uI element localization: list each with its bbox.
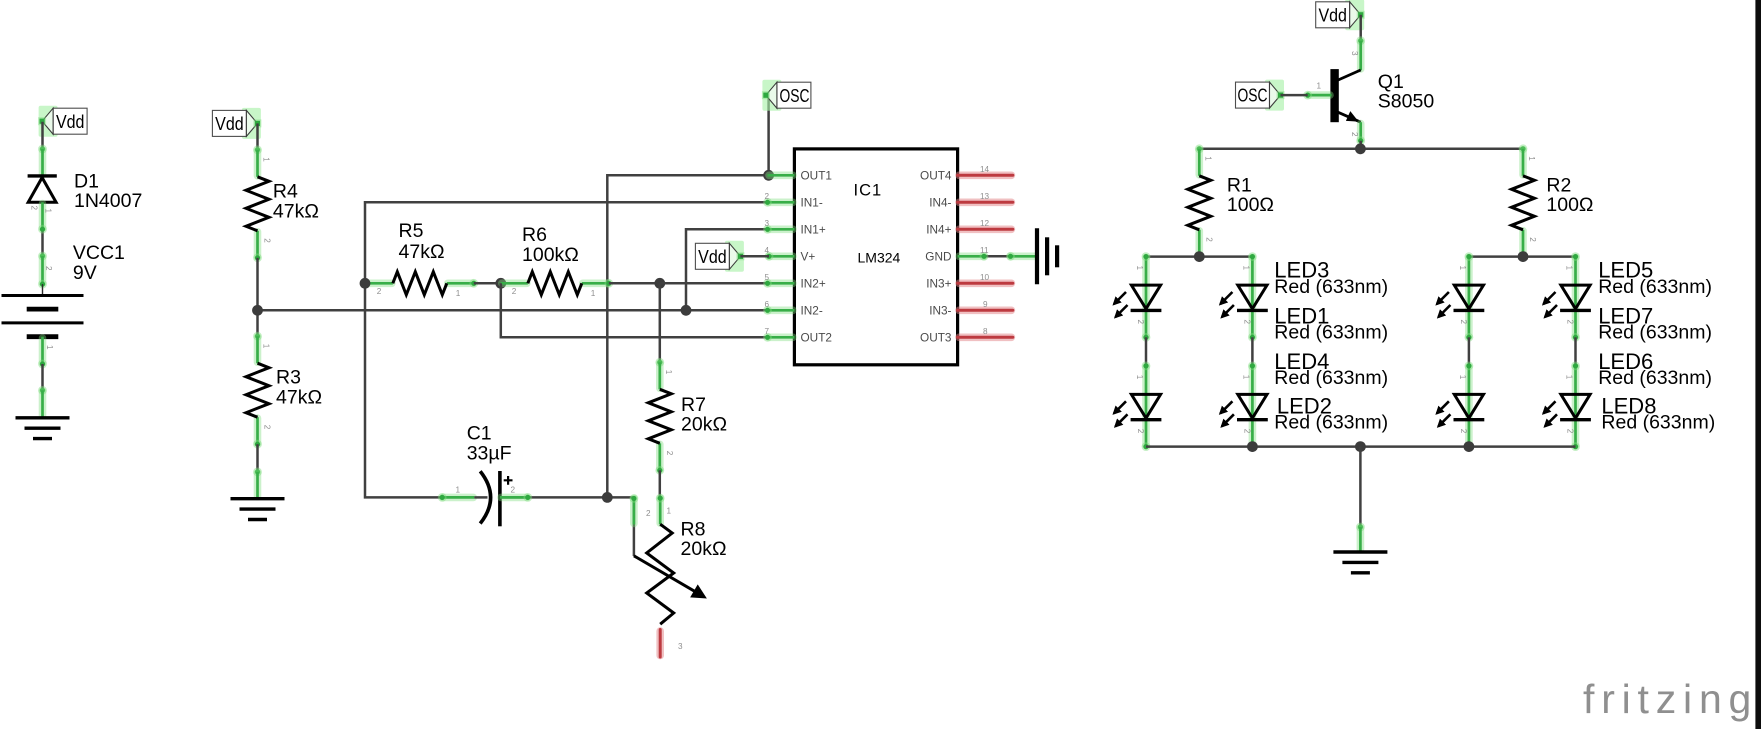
svg-text:IN4-: IN4- <box>929 196 951 210</box>
svg-text:1N4007: 1N4007 <box>74 190 142 212</box>
svg-text:2: 2 <box>511 486 516 495</box>
IC1 pin 7 OUT2 (green stub) <box>763 333 794 342</box>
wire D1 to battery <box>41 229 44 256</box>
svg-text:IN1-: IN1- <box>801 196 823 210</box>
LED3 (upper, column A) <box>1114 252 1161 342</box>
trimmer R8 pin1 (green) <box>656 498 664 523</box>
svg-text:9: 9 <box>983 300 988 309</box>
transistor Q1 base bar <box>1330 69 1338 122</box>
svg-text:33µF: 33µF <box>467 443 512 465</box>
svg-text:OUT1: OUT1 <box>801 169 832 183</box>
trimmer R8 wiper arrow <box>634 556 703 596</box>
transistor Q1 emitter pin (green) <box>1357 124 1365 140</box>
svg-text:5: 5 <box>765 273 770 282</box>
svg-text:Red (633nm): Red (633nm) <box>1274 322 1388 344</box>
wire R4 to bias node <box>256 258 259 311</box>
wire (green) to ground pin <box>1357 528 1365 550</box>
svg-text:R3: R3 <box>276 367 301 389</box>
wire R6 to IN2+ node <box>609 282 660 285</box>
diode D1 pin2 <box>39 204 47 229</box>
LED1 (upper, column B) <box>1220 252 1267 342</box>
IC1 pin 5 IN2+ (green stub) <box>763 279 794 288</box>
node wire end at C1 pin1 <box>438 493 447 502</box>
transistor Q1 base pin (green) <box>1309 91 1330 99</box>
svg-text:Vdd: Vdd <box>698 246 727 267</box>
svg-text:1: 1 <box>456 486 461 495</box>
resistor R6 <box>501 272 609 298</box>
svg-text:IN4+: IN4+ <box>926 223 951 237</box>
wire bias rail (R4/R3 node to IN2-) <box>258 309 768 312</box>
wire R3 to ground <box>256 444 259 472</box>
svg-text:20kΩ: 20kΩ <box>681 414 727 436</box>
svg-text:Red (633nm): Red (633nm) <box>1598 367 1712 389</box>
IC1 pin 14 OUT4 (red stub) <box>959 172 1011 180</box>
svg-text:12: 12 <box>980 219 990 228</box>
battery VCC1 pin1 (thin) <box>42 284 44 295</box>
node wire end at R8 wiper <box>630 494 639 503</box>
diode D1 pin1 <box>39 150 47 175</box>
svg-text:8: 8 <box>983 327 988 336</box>
trimmer R8 wiper pin (green) <box>630 499 638 524</box>
svg-text:Vdd: Vdd <box>56 111 85 132</box>
wire R7 from IN2+ node <box>659 283 662 362</box>
capacitor C1 curved plate <box>480 471 490 523</box>
svg-text:1: 1 <box>44 209 53 214</box>
junction node bottom rail B <box>1247 441 1258 452</box>
wire IN2+ node to IC <box>660 282 768 285</box>
svg-text:20kΩ: 20kΩ <box>681 538 727 560</box>
IC1 pin 10 IN3+ (red stub) <box>959 279 1011 287</box>
wire OUT2 link <box>501 283 768 337</box>
svg-text:V+: V+ <box>801 250 816 264</box>
capacitor C1 pin2 (green) <box>501 494 527 502</box>
wire OSC to OUT1 <box>767 96 770 175</box>
svg-text:IN3-: IN3- <box>929 304 951 318</box>
svg-text:47kΩ: 47kΩ <box>399 241 445 263</box>
LED6 (lower, column C) <box>1437 362 1484 452</box>
battery VCC1 plate 3 <box>2 321 84 324</box>
svg-text:2: 2 <box>646 509 651 518</box>
transistor Q1 collector lead <box>1337 70 1361 81</box>
node wire end <box>38 360 47 369</box>
capacitor C1 inner lead <box>474 496 487 499</box>
svg-text:100Ω: 100Ω <box>1227 194 1274 216</box>
junction node IN1+/IN2- <box>681 305 692 316</box>
LED5 (upper, column C) <box>1437 252 1484 342</box>
ground symbol (battery) <box>16 418 70 439</box>
svg-text:6: 6 <box>765 300 770 309</box>
wire emitter rail <box>1361 141 1523 149</box>
wire IN1+ link <box>686 229 768 310</box>
resistor R3 <box>246 336 272 444</box>
IC1 pin 8 OUT3 (red stub) <box>959 333 1011 341</box>
IC1 pin 13 IN4- (red stub) <box>959 199 1011 207</box>
svg-text:GND: GND <box>925 250 951 264</box>
wire mid column D <box>1574 337 1577 366</box>
svg-text:R5: R5 <box>399 220 424 242</box>
net label Vdd (flag at V+) <box>695 241 744 272</box>
svg-text:100Ω: 100Ω <box>1546 194 1593 216</box>
svg-text:LM324: LM324 <box>858 249 901 265</box>
svg-text:2: 2 <box>44 266 53 271</box>
net label Vdd (flag, battery column) <box>38 106 87 137</box>
wire Vdd flag to Q1 collector <box>1359 15 1362 41</box>
svg-text:C1: C1 <box>467 423 492 445</box>
node wire end at R2 pin1 <box>1519 144 1528 153</box>
IC1 pin 1 OUT1 (green stub) <box>768 172 795 180</box>
svg-text:Red (633nm): Red (633nm) <box>1598 276 1712 298</box>
svg-text:2: 2 <box>30 206 39 211</box>
svg-text:4: 4 <box>765 246 770 255</box>
junction node below R2 <box>1518 251 1529 262</box>
ground symbol (IC GND, rotated) <box>1037 228 1057 284</box>
IC1 pin 12 IN4+ (red stub) <box>959 226 1011 234</box>
svg-text:7: 7 <box>765 327 770 336</box>
svg-text:11: 11 <box>980 246 989 255</box>
wire bias node to R3 <box>256 310 259 336</box>
svg-text:2: 2 <box>1350 132 1359 137</box>
node wire end <box>253 468 262 477</box>
node wire end at R3 pin2 <box>253 440 262 449</box>
capacitor C1 straight plate <box>498 471 502 526</box>
battery VCC1 plate 1 (+) <box>2 294 84 297</box>
node wire end at Q1 collector <box>1356 36 1365 45</box>
svg-text:Vdd: Vdd <box>1318 4 1347 25</box>
IC1 pin 6 IN2- (green stub) <box>763 306 794 315</box>
wire (green) to battery pin1 <box>39 257 47 283</box>
svg-text:R4: R4 <box>273 181 298 203</box>
node wire end at R6 pin1 <box>604 279 613 288</box>
svg-text:10: 10 <box>980 273 990 282</box>
svg-text:1: 1 <box>1317 82 1322 91</box>
svg-text:Red (633nm): Red (633nm) <box>1274 412 1388 434</box>
svg-text:VCC1: VCC1 <box>73 242 125 264</box>
node wire end <box>38 225 47 234</box>
svg-text:OUT3: OUT3 <box>920 331 952 345</box>
resistor R1 <box>1188 149 1214 257</box>
svg-text:OUT4: OUT4 <box>920 169 952 183</box>
svg-text:3: 3 <box>765 219 770 228</box>
wire mid column C <box>1468 337 1471 366</box>
wire IN1- rail and left loop vertical <box>365 202 768 497</box>
node wire end at R7 pin1 <box>655 358 664 367</box>
op-amp IC1 LM324 body <box>794 149 957 365</box>
wire C1 row: C1 to R8 wiper <box>500 497 634 556</box>
IC1 pin 11 GND wire to ground <box>958 252 1037 261</box>
svg-text:Red (633nm): Red (633nm) <box>1274 367 1388 389</box>
wire top rail left LED group <box>1146 255 1252 258</box>
svg-text:100kΩ: 100kΩ <box>522 244 579 266</box>
transistor Q1 emitter lead <box>1337 112 1361 122</box>
svg-text:IN1+: IN1+ <box>801 223 826 237</box>
wire Vdd flag to V+ pin <box>740 255 769 258</box>
node wire end at D1 pin1 <box>38 145 47 154</box>
net label OSC (flag at Q1 base) <box>1236 80 1285 111</box>
battery VCC1 pin2 (green) <box>39 338 47 363</box>
junction node below R1 <box>1194 251 1205 262</box>
junction node bottom rail center <box>1355 441 1366 452</box>
svg-text:fritzing: fritzing <box>1583 676 1758 722</box>
LED2 (lower, column B) <box>1220 362 1267 452</box>
wire OSC flag to Q1 base <box>1281 94 1308 97</box>
wire bottom rail <box>1146 445 1576 448</box>
svg-text:Red (633nm): Red (633nm) <box>1601 412 1715 434</box>
transistor Q1 emitter arrowhead <box>1346 111 1359 122</box>
svg-text:3: 3 <box>678 642 683 651</box>
wire R5 to R6 <box>474 282 501 285</box>
wire OUT1 rail <box>607 175 768 497</box>
svg-text:R6: R6 <box>522 224 547 246</box>
diode D1 cathode bar <box>28 174 57 177</box>
capacitor C1 plus sign <box>504 476 513 485</box>
node wire end at R4 pin1 <box>253 145 262 154</box>
ground symbol (R3) <box>231 499 285 520</box>
trimmer R8 zigzag <box>647 524 674 624</box>
svg-text:IN2-: IN2- <box>801 304 823 318</box>
black border bar at right edge <box>1755 0 1761 729</box>
node wire end <box>1356 523 1365 532</box>
node wire end <box>38 386 47 395</box>
node wire end at R3 pin1 <box>253 332 262 341</box>
node wire end at Q1 base <box>1303 91 1312 100</box>
net label Vdd (flag, R4 column) <box>212 108 261 139</box>
svg-text:IN3+: IN3+ <box>926 277 951 291</box>
IC1 pin 3 IN1+ (green stub) <box>763 225 794 234</box>
node wire end <box>38 252 47 261</box>
wire mid column B <box>1251 337 1254 366</box>
IC1 pin 4 V+ (green stub) <box>765 252 795 261</box>
battery VCC1 plate 4 <box>27 334 59 339</box>
junction node at R4/R3 bias <box>252 305 263 316</box>
node wire end at battery pin1 <box>38 280 47 289</box>
junction node bottom rail C <box>1464 441 1475 452</box>
wire (green) to ground pin <box>39 391 47 415</box>
svg-text:1: 1 <box>45 345 54 350</box>
svg-text:14: 14 <box>980 165 990 174</box>
junction node C1 row <box>602 492 613 503</box>
node wire end at R7 pin2 <box>655 466 664 475</box>
trimmer R8 pin3 (red, unconnected) <box>656 631 664 656</box>
svg-text:47kΩ: 47kΩ <box>273 201 319 223</box>
wire top rail right LED group <box>1469 255 1576 258</box>
svg-text:3: 3 <box>1350 51 1359 56</box>
node wire end at R1 pin1 <box>1195 144 1204 153</box>
wire mid column A <box>1145 337 1148 366</box>
net label Vdd (flag above Q1) <box>1316 0 1365 30</box>
junction node IN2+/R7 <box>654 278 665 289</box>
IC1 pin 9 IN3- (red stub) <box>959 306 1011 314</box>
svg-text:2: 2 <box>765 192 770 201</box>
svg-text:Red (633nm): Red (633nm) <box>1274 276 1388 298</box>
wire battery to ground <box>41 364 44 390</box>
IC1 pin 2 IN1- (green stub) <box>763 198 794 207</box>
battery VCC1 plate 2 <box>27 307 59 312</box>
junction node at emitter <box>1355 143 1366 154</box>
svg-text:Red (633nm): Red (633nm) <box>1598 322 1712 344</box>
ground symbol (LED rail) <box>1333 552 1387 573</box>
junction node at OUT1 <box>763 170 774 181</box>
resistor R2 <box>1512 149 1538 257</box>
svg-text:IC1: IC1 <box>854 182 883 200</box>
svg-text:Vdd: Vdd <box>215 113 244 134</box>
diode D1 triangle <box>28 178 56 203</box>
node wire end at R5 pin1 <box>469 279 478 288</box>
LED4 (lower, column A) <box>1114 362 1161 452</box>
svg-text:13: 13 <box>980 192 990 201</box>
node wire end at R4 pin2 <box>253 253 262 262</box>
junction node R6 left <box>495 278 506 289</box>
wire Vdd flag to R4 <box>256 123 259 149</box>
capacitor C1 pin1 (green) <box>443 494 473 502</box>
node wire end at Q1 emitter <box>1356 136 1365 145</box>
svg-text:1: 1 <box>667 507 672 516</box>
svg-text:OUT2: OUT2 <box>801 331 832 345</box>
svg-text:9V: 9V <box>73 262 97 284</box>
node wire end at C1 pin2 <box>523 493 532 502</box>
svg-text:47kΩ: 47kΩ <box>276 387 322 409</box>
LED8 (lower, column D) <box>1544 362 1591 452</box>
net label OSC (flag) <box>762 80 811 111</box>
wire (green) to ground pin <box>254 473 262 497</box>
node wire end at R8 pin1 <box>656 494 665 503</box>
svg-text:OSC: OSC <box>1238 85 1268 106</box>
LED7 (upper, column D) <box>1544 252 1591 342</box>
wire bottom rail to ground <box>1359 447 1362 527</box>
transistor Q1 collector pin (green) <box>1357 42 1365 69</box>
junction node R5 left <box>360 278 371 289</box>
resistor R5 <box>366 272 474 298</box>
svg-text:OSC: OSC <box>780 85 810 106</box>
svg-text:IN2+: IN2+ <box>801 277 826 291</box>
wire R7 to R8 <box>659 470 662 497</box>
svg-text:S8050: S8050 <box>1378 90 1435 112</box>
resistor R7 <box>648 362 674 470</box>
resistor R4 <box>246 150 272 258</box>
wire Vdd flag to D1 <box>41 122 44 149</box>
